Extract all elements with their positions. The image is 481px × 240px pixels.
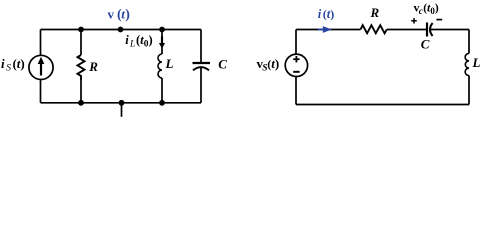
svg-text:vS(t): vS(t) (257, 56, 280, 74)
svg-text:C: C (218, 56, 227, 71)
svg-text:R: R (370, 5, 380, 20)
svg-text:i(t): i(t) (318, 7, 334, 21)
svg-text:L: L (165, 56, 174, 71)
svg-text:v(t): v(t) (108, 6, 131, 22)
svg-text:C: C (421, 36, 430, 51)
svg-text:iS(t): iS(t) (1, 56, 25, 74)
svg-text:R: R (88, 59, 98, 74)
svg-text:vc(t0): vc(t0) (414, 1, 439, 16)
svg-text:L: L (472, 55, 481, 70)
